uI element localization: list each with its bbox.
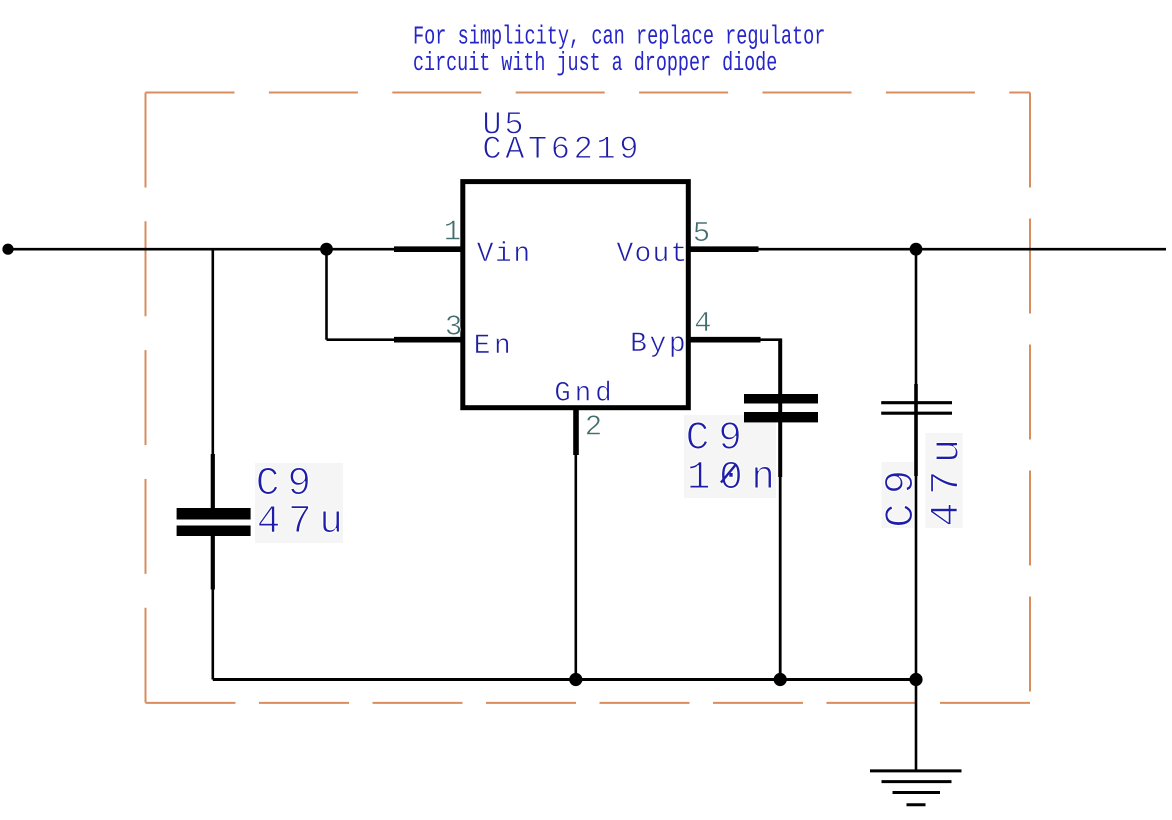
pin 4 stub xyxy=(688,337,761,343)
pin 3 stub xyxy=(394,337,463,343)
svg-text:3: 3 xyxy=(445,311,462,344)
svg-text:47u: 47u xyxy=(257,499,351,544)
ground xyxy=(870,680,962,805)
node Gnd junction xyxy=(569,673,582,686)
wire left cap branch vertical top xyxy=(212,249,215,454)
svg-text:5: 5 xyxy=(693,217,710,250)
svg-text:10n: 10n xyxy=(687,455,784,500)
wire Byp to cap xyxy=(760,338,782,341)
svg-text:Byp: Byp xyxy=(630,329,688,360)
wire Gnd pin down xyxy=(574,455,577,680)
svg-text:C9: C9 xyxy=(879,461,925,528)
capacitor C9 47u right xyxy=(881,249,952,679)
label background tints xyxy=(255,415,963,543)
node junction Vin/En xyxy=(320,243,333,256)
IC U5 body xyxy=(463,182,689,408)
node 10n junction xyxy=(774,673,787,686)
capacitor C9 10n middle xyxy=(744,339,818,680)
svg-text:circuit with just a dropper di: circuit with just a dropper diode xyxy=(413,48,777,78)
svg-text:For simplicity, can replace re: For simplicity, can replace regulator xyxy=(413,22,825,52)
wire Vout horizontal xyxy=(758,248,1166,251)
svg-text:En: En xyxy=(474,331,515,362)
svg-text:4: 4 xyxy=(694,307,711,340)
svg-text:C9: C9 xyxy=(686,415,751,460)
svg-text:1: 1 xyxy=(444,216,461,249)
wire ground bus horizontal xyxy=(213,678,916,681)
node right cap junction xyxy=(909,673,922,686)
svg-text:47u: 47u xyxy=(925,431,971,526)
svg-text:Vin: Vin xyxy=(477,239,532,270)
wire En branch horizontal xyxy=(327,338,396,341)
svg-text:2: 2 xyxy=(585,411,602,444)
pin 1 stub xyxy=(394,246,463,252)
capacitor C9 47u left xyxy=(177,454,251,680)
svg-text:Vout: Vout xyxy=(617,239,689,270)
value 10n zero slash xyxy=(721,465,736,483)
wire main input horizontal xyxy=(8,248,395,251)
node input endpoint xyxy=(2,244,13,255)
svg-text:CAT6219: CAT6219 xyxy=(482,131,642,168)
svg-text:Gnd: Gnd xyxy=(554,379,616,410)
pin 2 stub xyxy=(573,408,579,455)
note text xyxy=(413,22,825,78)
pin 5 stub xyxy=(688,246,759,252)
node junction Vout/C-right xyxy=(910,243,923,256)
highlight box dashed xyxy=(146,93,1031,703)
wire En branch vertical xyxy=(325,249,328,340)
